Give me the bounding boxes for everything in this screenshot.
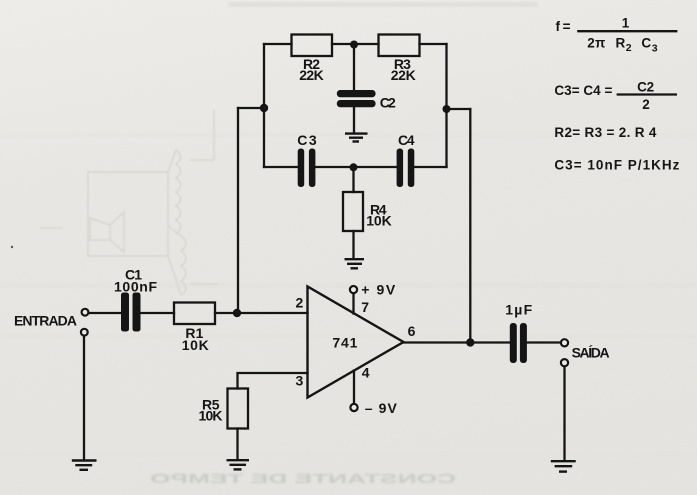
svg-text:741: 741 <box>332 335 357 351</box>
svg-text:4: 4 <box>362 364 370 380</box>
capacitor C4 <box>397 149 404 188</box>
wire cap out to saida <box>527 341 561 343</box>
svg-text:7: 7 <box>361 299 369 315</box>
wire feedback vertical <box>469 109 471 343</box>
svg-text:3: 3 <box>652 43 658 55</box>
svg-text:2: 2 <box>642 97 650 112</box>
node F output junction <box>466 338 474 346</box>
wire pin 7 <box>352 293 354 313</box>
ground below R4 <box>345 259 365 268</box>
wire C2 top lead <box>353 44 355 90</box>
terminal saida top <box>561 339 568 346</box>
scan bands <box>0 133 697 456</box>
wire entrada lower terminal to ground <box>83 336 85 459</box>
wire bottom rail left <box>264 166 298 168</box>
wire inverting input vertical <box>237 108 239 313</box>
terminal entrada top <box>82 309 89 316</box>
capacitor C2 <box>337 90 376 97</box>
wire left node stub <box>238 107 264 109</box>
wire R2 to node <box>332 43 379 45</box>
wire output pin 6 <box>404 341 510 343</box>
svg-text:CONSTANTE DE TEMPO: CONSTANTE DE TEMPO <box>150 471 456 486</box>
svg-text:C2: C2 <box>380 95 396 111</box>
svg-text:– 9V: – 9V <box>365 400 398 416</box>
wire right node stub <box>447 108 471 110</box>
node B junction C3-C4-R4 <box>350 163 358 171</box>
ghost bleed-through: faint top band text <box>228 2 538 7</box>
wire R1 to op-amp pin 2 <box>215 312 308 314</box>
svg-text:+ 9V: + 9V <box>361 282 396 298</box>
svg-text:22K: 22K <box>299 67 324 83</box>
svg-text:f =: f = <box>556 19 571 34</box>
terminal +9V <box>350 286 357 293</box>
svg-text:R2= R3 = 2. R 4: R2= R3 = 2. R 4 <box>554 125 656 140</box>
terminal entrada bottom <box>81 329 88 336</box>
wire R3 to right corner <box>420 43 447 45</box>
svg-text:10K: 10K <box>366 213 392 229</box>
ghost bleed-through: transformer and speaker on left <box>40 110 218 295</box>
wire twin-T left edge <box>263 44 265 167</box>
scan speck <box>11 246 13 248</box>
wire C2 bottom lead <box>353 107 355 133</box>
formula fraction bar 2 <box>617 93 677 95</box>
op-amp U1 741 <box>308 287 404 398</box>
svg-text:22K: 22K <box>391 67 416 83</box>
resistor R4 <box>343 192 363 231</box>
wire C3 to node <box>316 166 397 168</box>
svg-text:C3= C4 =: C3= C4 = <box>554 83 612 98</box>
wire R5 to ground <box>236 429 238 460</box>
wire C4 to right <box>415 166 447 168</box>
wire saida lower terminal to ground <box>563 366 565 459</box>
svg-text:1: 1 <box>622 16 630 31</box>
svg-text:C4: C4 <box>398 132 415 148</box>
wire input to C1 <box>89 312 122 314</box>
capacitor 1uF output <box>510 323 517 363</box>
svg-text:2: 2 <box>626 42 632 54</box>
wire twin-T right edge <box>445 44 447 167</box>
capacitor C3 <box>298 149 305 188</box>
svg-text:10K: 10K <box>182 337 209 353</box>
svg-text:6: 6 <box>408 323 416 339</box>
svg-text:1µF: 1µF <box>505 302 532 318</box>
resistor R1 <box>174 303 215 325</box>
resistor R3 <box>379 35 420 57</box>
svg-text:2π: 2π <box>587 36 605 51</box>
svg-text:R: R <box>616 36 626 51</box>
ground saida <box>551 461 576 471</box>
svg-text:ENTRADA: ENTRADA <box>14 312 77 328</box>
node C twin-T left <box>260 104 268 112</box>
svg-text:2: 2 <box>296 295 304 311</box>
wire C1 to R1 <box>141 312 174 314</box>
ghost bleed-through: mirrored text bottom <box>150 471 456 486</box>
svg-text:3: 3 <box>296 373 304 389</box>
svg-text:100nF: 100nF <box>114 279 157 295</box>
ground below C2 <box>345 134 368 142</box>
wire R4 bottom lead <box>352 231 354 258</box>
terminal -9V <box>350 404 357 411</box>
resistor R5 <box>228 389 249 429</box>
svg-text:C: C <box>641 36 651 51</box>
wire R4 top lead <box>352 167 354 192</box>
wire top rail left <box>264 43 292 45</box>
svg-text:C 2: C 2 <box>637 80 654 95</box>
svg-text:C3: C3 <box>297 132 317 148</box>
wire op-amp pin 3 <box>238 373 308 389</box>
terminal saida bottom <box>561 359 568 366</box>
node E inverting input junction <box>233 309 241 317</box>
svg-text:SAÍDA: SAÍDA <box>572 345 610 361</box>
formula fraction bar <box>577 30 677 32</box>
wire pin 4 <box>353 371 355 404</box>
svg-text:C3= 10nF P/1KHz: C3= 10nF P/1KHz <box>554 158 679 173</box>
resistor R2 <box>292 35 333 57</box>
node D twin-T right <box>443 105 451 113</box>
node A junction R2-R3-C2 <box>350 41 358 49</box>
capacitor C1 <box>121 293 129 332</box>
ground entrada <box>72 461 97 470</box>
ground R5 <box>227 460 250 469</box>
svg-text:10K: 10K <box>199 408 223 424</box>
